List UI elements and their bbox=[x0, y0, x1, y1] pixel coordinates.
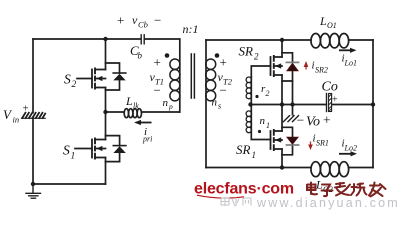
wire top-left rail bbox=[33, 38, 180, 40]
diode DSR1 (SR1 body diode, red) bbox=[282, 127, 299, 155]
wire secondary top rail bbox=[206, 39, 311, 41]
label Vin bbox=[3, 103, 29, 125]
svg-text:+: + bbox=[117, 13, 124, 28]
svg-text:www.dianyuan.com: www.dianyuan.com bbox=[256, 196, 399, 210]
svg-text:n: n bbox=[212, 97, 218, 109]
label Lo1 bbox=[319, 14, 337, 30]
svg-text:1: 1 bbox=[71, 152, 76, 162]
label iSR2 bbox=[312, 60, 328, 75]
node secondary polarity dot bbox=[215, 53, 220, 58]
svg-text:n: n bbox=[163, 97, 169, 109]
node primary polarity dot bbox=[165, 53, 170, 58]
wire S2 drain bbox=[105, 39, 107, 70]
ground bbox=[26, 184, 41, 198]
node E middle rail left junction bbox=[248, 102, 252, 106]
label S2 bbox=[64, 72, 77, 91]
arrow iLo2 bbox=[339, 153, 352, 155]
svg-text:elecfans·com: elecfans·com bbox=[194, 181, 294, 198]
node dot n1 bbox=[258, 130, 261, 133]
wire Lo1 to right rail bbox=[349, 39, 373, 41]
svg-text:L: L bbox=[125, 94, 133, 108]
svg-text:S: S bbox=[64, 72, 71, 87]
svg-text:n:1: n:1 bbox=[183, 22, 199, 36]
wire S1 drain bbox=[105, 112, 107, 140]
wire left rail lower bbox=[32, 118, 34, 184]
transistor S1 bbox=[75, 139, 106, 159]
wire left rail upper bbox=[32, 39, 34, 113]
svg-text:Vo: Vo bbox=[306, 115, 320, 130]
diode D2 (S2 body diode) bbox=[106, 63, 126, 90]
svg-text:Lo1: Lo1 bbox=[344, 59, 357, 68]
wire SR2 drain bbox=[281, 40, 283, 57]
svg-text:+: + bbox=[23, 103, 29, 115]
svg-text:+: + bbox=[220, 55, 227, 70]
label r2 bbox=[261, 83, 270, 98]
svg-text:1: 1 bbox=[252, 150, 257, 160]
svg-text:SR1: SR1 bbox=[316, 139, 329, 148]
winding r2 bbox=[250, 77, 252, 105]
transistor S2 bbox=[77, 69, 106, 89]
label iLo1 bbox=[342, 53, 357, 68]
label S1 bbox=[63, 143, 75, 162]
svg-text:L: L bbox=[319, 14, 327, 28]
svg-text:−: − bbox=[297, 113, 305, 128]
node G middle rail ground junction bbox=[290, 102, 294, 106]
svg-text:lk: lk bbox=[133, 102, 139, 111]
label ns bbox=[212, 97, 222, 111]
transistor SR2 bbox=[251, 56, 282, 77]
diode D1 (S1 body diode) bbox=[106, 136, 126, 162]
svg-text:2: 2 bbox=[266, 89, 270, 98]
svg-text:SR: SR bbox=[239, 44, 254, 59]
svg-text:+: + bbox=[323, 113, 331, 128]
svg-text:n: n bbox=[260, 115, 266, 127]
svg-text:SR2: SR2 bbox=[315, 66, 328, 75]
wire right rail bbox=[372, 40, 374, 168]
svg-text:+: + bbox=[332, 95, 338, 106]
wire S2 source bbox=[105, 88, 107, 113]
svg-text:Cb: Cb bbox=[138, 20, 148, 30]
node A top-left junction bbox=[103, 37, 107, 41]
transformer T1 secondary winding bbox=[206, 59, 216, 101]
watermark chinese dianzifashaoyou bbox=[307, 183, 386, 197]
svg-text:Co: Co bbox=[322, 80, 338, 95]
node B mid-left junction bbox=[103, 110, 107, 114]
transistor SR1 bbox=[271, 130, 283, 150]
capacitor C1 plates bbox=[141, 35, 144, 44]
node C bottom-left junction bbox=[31, 182, 35, 186]
arrow iSR2 red bbox=[305, 65, 307, 70]
wire middle rail bbox=[251, 104, 374, 106]
watermark dianyuanwang gray bbox=[221, 197, 251, 206]
wire secondary bottom bbox=[205, 40, 207, 168]
label iLo2 bbox=[342, 138, 357, 153]
label vT2 bbox=[218, 55, 233, 98]
label -Vo+ bbox=[297, 113, 331, 130]
wire SR2 source bbox=[281, 75, 283, 105]
svg-text:−: − bbox=[154, 13, 161, 28]
diode DSR2 (SR2 body diode, red) bbox=[282, 53, 299, 105]
svg-text:−: − bbox=[154, 83, 161, 98]
label Llk bbox=[125, 94, 139, 111]
wire Lo2 to right rail bbox=[349, 167, 373, 169]
elecfans.com logo bbox=[194, 181, 294, 199]
ground earth right bbox=[292, 105, 294, 115]
wire Llk to primary bbox=[142, 111, 180, 113]
label +vCb- bbox=[117, 13, 161, 30]
node dot r2 bbox=[255, 95, 258, 98]
label ipri bbox=[142, 126, 152, 144]
svg-text:p: p bbox=[168, 102, 173, 111]
svg-text:s: s bbox=[218, 102, 221, 111]
inductor Lo2 bbox=[311, 162, 321, 177]
svg-text:in: in bbox=[13, 115, 20, 125]
label n1 bbox=[260, 115, 271, 130]
svg-text:Lo2: Lo2 bbox=[344, 144, 357, 153]
wire SR1 drain bbox=[281, 105, 283, 132]
arrow ipri bbox=[140, 122, 152, 124]
label Lo2 bbox=[315, 178, 333, 195]
wire SR1 source bbox=[281, 149, 283, 168]
label vT1 bbox=[150, 55, 164, 98]
svg-text:SR: SR bbox=[236, 142, 251, 157]
transformer core bbox=[191, 54, 194, 98]
wire S1 source bbox=[105, 158, 107, 185]
label Cb bbox=[130, 43, 143, 61]
svg-text:S: S bbox=[63, 143, 70, 158]
svg-text:pri: pri bbox=[142, 135, 152, 144]
svg-text:2: 2 bbox=[72, 80, 77, 90]
wire bottom rail bbox=[206, 167, 311, 169]
node D secondary top junction bbox=[280, 38, 284, 42]
node H right rail junction bbox=[371, 102, 375, 106]
label SR1 bbox=[236, 142, 256, 160]
node I bottom rail junction bbox=[280, 165, 284, 169]
svg-text:1: 1 bbox=[266, 121, 270, 130]
svg-text:−: − bbox=[220, 83, 227, 98]
inductor Lo1 bbox=[311, 34, 321, 48]
label np bbox=[163, 97, 174, 111]
capacitor Co bbox=[326, 94, 328, 112]
label SR2 bbox=[239, 44, 260, 62]
arrow iLo1 bbox=[339, 49, 351, 51]
transformer T1 primary winding bbox=[179, 39, 181, 112]
inductor Llk bbox=[106, 111, 125, 113]
wire bottom-left bbox=[33, 183, 106, 185]
battery Vin hatched plate bbox=[22, 113, 45, 118]
arrow iSR1 red bbox=[310, 142, 312, 147]
winding n1 bbox=[251, 105, 270, 140]
svg-text:+: + bbox=[154, 55, 161, 70]
svg-text:O1: O1 bbox=[327, 21, 337, 30]
label iSR1 bbox=[313, 133, 329, 148]
svg-text:b: b bbox=[138, 51, 143, 61]
node F middle rail SR junction bbox=[280, 102, 284, 106]
svg-text:2: 2 bbox=[254, 52, 259, 62]
